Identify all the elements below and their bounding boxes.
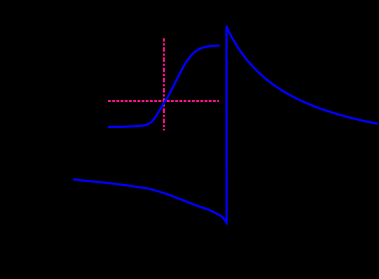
horizontal dashed marker line (half-equivalence) bbox=[108, 100, 219, 102]
derivative spike curve bbox=[73, 26, 378, 223]
vertical dash-dot marker line (equivalence volume) bbox=[163, 38, 165, 130]
titration sigmoid curve bbox=[108, 46, 220, 127]
